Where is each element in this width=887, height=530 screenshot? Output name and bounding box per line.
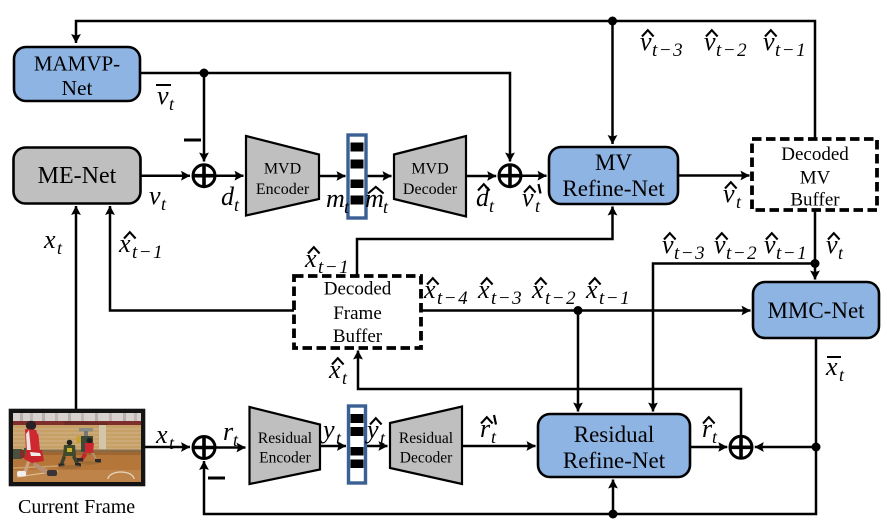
minus sign at adder S1 bbox=[184, 139, 201, 142]
wire: branch of decoded MVs to Residual Refine-Net top bbox=[653, 264, 815, 412]
label y_t bbox=[320, 415, 342, 448]
svg-text:MV: MV bbox=[595, 150, 632, 175]
label vhat_t-1 top row bbox=[763, 27, 807, 61]
svg-text:MVD: MVD bbox=[411, 161, 448, 178]
center green player bbox=[67, 440, 73, 446]
node junction on bottom feedback line bbox=[609, 510, 618, 519]
label xhat_t-1 into ME-Net bbox=[118, 229, 164, 263]
svg-text:t−2: t−2 bbox=[726, 243, 758, 264]
label xhat_t-1 row bbox=[585, 275, 631, 309]
wire: current frame x_t up to ME-Net bbox=[75, 206, 78, 409]
label x_t into ME-Net bbox=[43, 225, 63, 258]
minus sign at adder S3 bbox=[208, 477, 225, 480]
label x_t from current frame bbox=[155, 420, 175, 453]
wire: v-bar branch right down to adder S2 bbox=[204, 73, 510, 162]
wire: x-bar feedback down and left to adder S3 bbox=[204, 447, 816, 514]
current frame picture bbox=[11, 411, 143, 484]
label r_t bbox=[223, 417, 239, 450]
wire: MVD Decoder to adder S2 bbox=[466, 175, 496, 178]
svg-text:Current Frame: Current Frame bbox=[18, 496, 135, 518]
wire: MMC-Net bottom to adder S4 bbox=[755, 338, 816, 447]
label xhat_t into frame buffer bbox=[328, 355, 348, 388]
svg-text:t−4: t−4 bbox=[437, 288, 469, 309]
svg-text:Frame: Frame bbox=[333, 303, 382, 324]
svg-text:MMC-Net: MMC-Net bbox=[767, 298, 865, 323]
svg-text:t−1: t−1 bbox=[132, 242, 164, 263]
wire: current frame to adder S3 bbox=[145, 446, 190, 449]
svg-text:Buffer: Buffer bbox=[333, 326, 383, 347]
Decoded Frame Buffer dashed box bbox=[294, 276, 421, 348]
Residual Encoder trapezoid bbox=[250, 407, 321, 484]
label v_t bbox=[149, 181, 167, 214]
svg-text:t−3: t−3 bbox=[674, 243, 706, 264]
wire: adder S3 to Residual Encoder bbox=[215, 446, 245, 449]
svg-text:v: v bbox=[149, 181, 161, 210]
MMC-Net box bbox=[753, 282, 879, 338]
wire: Decoded Frame Buffer output to MMC-Net bbox=[421, 309, 751, 312]
label vhat_t-1 mid row bbox=[764, 230, 808, 264]
svg-text:y: y bbox=[320, 415, 335, 444]
svg-text:Decoder: Decoder bbox=[400, 450, 453, 467]
svg-text:Decoded: Decoded bbox=[324, 279, 392, 300]
label vhat_t-3 top row bbox=[640, 27, 684, 61]
svg-text:Residual: Residual bbox=[258, 430, 312, 447]
node junction at x-bar line bbox=[812, 443, 821, 452]
node junction on top feedback line bbox=[608, 17, 617, 26]
label yhat_t bbox=[364, 415, 386, 448]
svg-text:Encoder: Encoder bbox=[256, 181, 310, 198]
label vhat_t mid row bbox=[826, 230, 844, 263]
adder S3 (x_t minus xbar_t) bbox=[193, 437, 215, 459]
svg-text:t−3: t−3 bbox=[491, 288, 523, 309]
svg-text:MAMVP-: MAMVP- bbox=[34, 52, 120, 76]
svg-text:m: m bbox=[326, 184, 345, 213]
label mhat_t bbox=[365, 184, 389, 217]
svg-text:MVD: MVD bbox=[264, 161, 301, 178]
wire: Residual Decoder to Residual Refine-Net bbox=[462, 445, 536, 448]
svg-text:Buffer: Buffer bbox=[790, 190, 840, 211]
svg-text:Refine-Net: Refine-Net bbox=[563, 448, 666, 473]
wire: MAMVP-Net output to adder S1 bbox=[140, 73, 204, 162]
svg-text:Decoder: Decoder bbox=[403, 181, 458, 198]
label d_t bbox=[221, 182, 240, 215]
wire: branch from top line down into MV Refine-Net top bbox=[611, 21, 614, 144]
label vhat_t after MV Refine-Net bbox=[723, 179, 742, 212]
MAMVP-Net box bbox=[14, 47, 140, 101]
wire: Decoded Frame Buffer top to MV Refine-Net bottom bbox=[357, 207, 613, 277]
label vbar_t bbox=[156, 81, 175, 114]
left red player bbox=[26, 421, 36, 431]
MVD Decoder trapezoid bbox=[394, 136, 466, 217]
label xhat_t-3 bbox=[477, 275, 523, 309]
right red player bbox=[87, 438, 93, 444]
label rhat-prime_t bbox=[480, 414, 497, 447]
label xbar_t bbox=[825, 352, 845, 385]
Residual Refine-Net box bbox=[538, 414, 690, 477]
svg-text:d: d bbox=[221, 182, 235, 211]
svg-text:MV: MV bbox=[800, 168, 831, 189]
ME-Net box bbox=[14, 148, 141, 204]
node junction on decoded frame line bbox=[574, 306, 583, 315]
svg-text:x: x bbox=[43, 225, 56, 254]
label dhat_t bbox=[476, 183, 495, 216]
adder S2 (dhat plus vbar) bbox=[499, 165, 521, 187]
svg-text:t−1: t−1 bbox=[775, 40, 807, 61]
label vhat-prime_t bbox=[522, 183, 541, 216]
adder S4 (rhat plus xbar) bbox=[730, 436, 752, 458]
wire: MVD Encoder to quantizer Q1 bbox=[319, 175, 346, 178]
MVD Encoder trapezoid bbox=[246, 136, 319, 216]
svg-text:Decoded: Decoded bbox=[781, 144, 849, 165]
svg-text:Residual: Residual bbox=[399, 430, 453, 447]
node junction on v-bar line bbox=[200, 69, 209, 78]
wire: adder S1 to MVD Encoder bbox=[215, 174, 243, 177]
wire: quantizer Q1 to MVD Decoder bbox=[366, 175, 392, 178]
wire: adder S4 output x-hat up into Decoded Frame Buffer bbox=[358, 351, 741, 437]
wire: Decoded MV Buffer bottom to MMC-Net top bbox=[814, 210, 817, 280]
wire: quantizer Q2 to Residual Decoder bbox=[365, 445, 388, 448]
wire: Residual Encoder to quantizer Q2 bbox=[321, 445, 346, 448]
wire: adder S2 to MV Refine-Net bbox=[521, 174, 546, 177]
wire: branch of decoded frames to Residual Refine-Net top bbox=[577, 311, 580, 412]
wire: top feedback from Decoded MV Buffer to MAMVP-Net bbox=[76, 21, 815, 139]
svg-text:t−3: t−3 bbox=[652, 40, 684, 61]
wire: MV Refine-Net to Decoded MV Buffer bbox=[678, 174, 750, 177]
wire: branch up into Residual Refine-Net bottom bbox=[612, 480, 615, 515]
wire: ME-Net output to adder S1 bbox=[141, 174, 190, 177]
label vhat_t-2 mid row bbox=[714, 230, 758, 264]
label xhat_t-4 bbox=[423, 275, 469, 309]
node junction under MV buffer bbox=[811, 259, 820, 268]
quantizer Q2 bbox=[349, 406, 366, 483]
label xhat_t-1 above frame buffer bbox=[304, 244, 350, 278]
svg-text:t−1: t−1 bbox=[318, 257, 350, 278]
quantizer Q1 bbox=[348, 135, 366, 218]
adder S1 (v_t minus vbar_t) bbox=[193, 165, 215, 187]
label vhat_t-2 top row bbox=[704, 27, 748, 61]
label xhat_t-2 bbox=[531, 275, 577, 309]
svg-text:t−2: t−2 bbox=[716, 40, 748, 61]
svg-text:x: x bbox=[155, 420, 168, 449]
wire: previous frame from buffer to ME-Net bbox=[110, 206, 294, 311]
svg-text:Encoder: Encoder bbox=[259, 450, 311, 467]
Residual Decoder trapezoid bbox=[390, 407, 462, 485]
Decoded MV Buffer dashed box bbox=[752, 139, 877, 211]
label m_t bbox=[326, 184, 350, 217]
svg-text:Residual: Residual bbox=[574, 422, 655, 447]
label vhat_t-3 mid row bbox=[662, 230, 706, 264]
svg-text:Net: Net bbox=[61, 76, 92, 100]
svg-text:ME-Net: ME-Net bbox=[38, 163, 117, 189]
wire: Residual Refine-Net to adder S4 bbox=[690, 446, 727, 449]
MV Refine-Net box bbox=[549, 147, 678, 204]
svg-text:Refine-Net: Refine-Net bbox=[562, 176, 665, 201]
label rhat_t bbox=[702, 414, 718, 447]
svg-text:t−2: t−2 bbox=[545, 288, 577, 309]
svg-text:t−1: t−1 bbox=[599, 288, 631, 309]
svg-text:t−1: t−1 bbox=[776, 243, 808, 264]
